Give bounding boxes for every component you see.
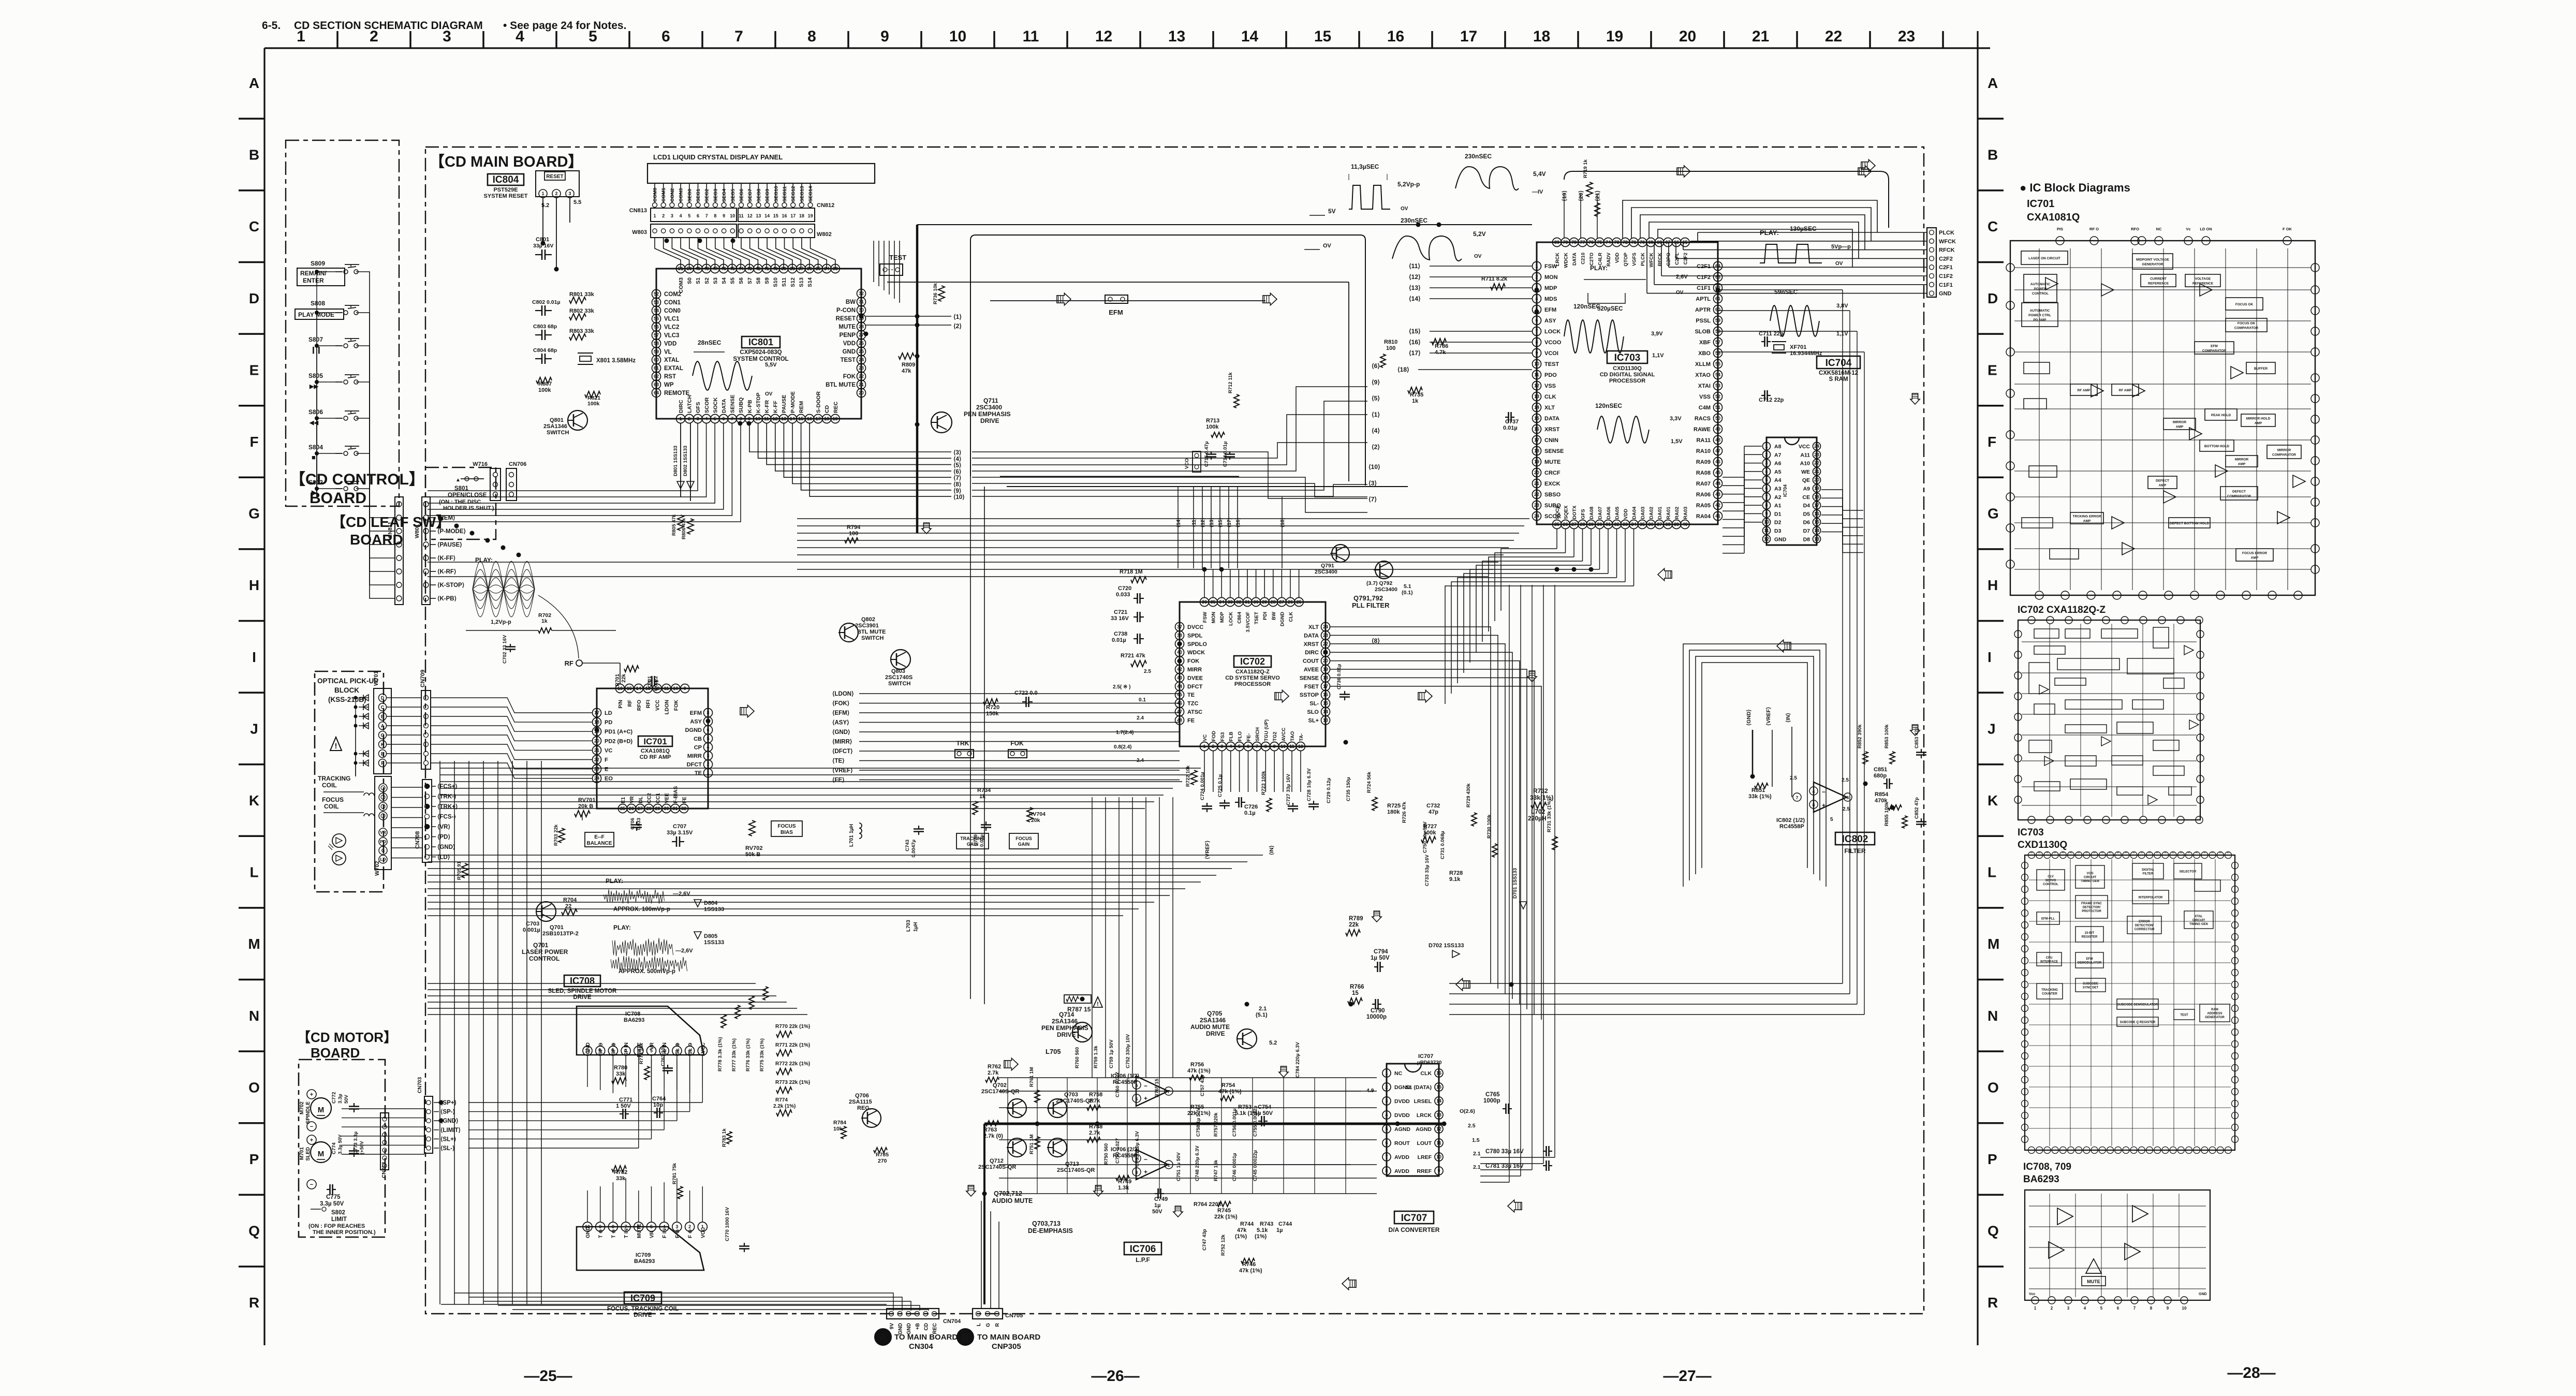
svg-text:W702: W702 — [374, 861, 380, 876]
svg-text:R703 22k: R703 22k — [553, 824, 559, 846]
resistor R785 270 — [874, 1148, 889, 1164]
svg-text:23: 23 — [859, 365, 864, 371]
svg-text:1µ: 1µ — [1276, 1227, 1283, 1233]
svg-text:23: 23 — [1814, 452, 1819, 457]
svg-text:4: 4 — [2084, 1306, 2086, 1311]
svg-text:(ON : THE DISC: (ON : THE DISC — [439, 499, 481, 505]
svg-text:R855 100k: R855 100k — [1884, 802, 1890, 826]
svg-text:E: E — [249, 362, 259, 378]
svg-text:S: S — [2164, 851, 2167, 854]
svg-text:FOCUS: FOCUS — [1015, 836, 1032, 841]
svg-text:RV701: RV701 — [578, 797, 595, 803]
svg-text:VDD: VDD — [1623, 509, 1629, 519]
wire PLL riser bundle — [1176, 487, 1286, 568]
svg-text:PD1 (A+C): PD1 (A+C) — [605, 729, 632, 735]
board outline CD MAIN BOARD — [425, 147, 1924, 1314]
svg-text:RA08: RA08 — [1696, 470, 1711, 476]
svg-text:C748 220µ 6.3V: C748 220µ 6.3V — [1195, 1145, 1200, 1181]
svg-text:34: 34 — [824, 266, 829, 271]
svg-text:S805: S805 — [308, 372, 323, 379]
waveform 28nSEC inside IC801 — [693, 339, 777, 397]
svg-text:21: 21 — [859, 382, 864, 387]
svg-text:100k: 100k — [1206, 424, 1219, 430]
svg-text:9: 9 — [1437, 1168, 1440, 1173]
svg-text:FS3: FS3 — [1220, 732, 1226, 741]
svg-text:C751 1µ 50V: C751 1µ 50V — [1176, 1152, 1182, 1181]
svg-text:PEAK HOLD: PEAK HOLD — [2211, 414, 2231, 417]
board outline CD MOTOR BOARD — [297, 1030, 397, 1237]
svg-text:S: S — [2030, 851, 2034, 854]
svg-text:P: P — [249, 1151, 259, 1167]
svg-text:DATA: DATA — [1544, 416, 1559, 422]
svg-text:62: 62 — [654, 374, 659, 379]
svg-text:VLC1: VLC1 — [664, 316, 680, 322]
svg-text:C: C — [1988, 218, 1998, 234]
svg-text:COIL: COIL — [322, 782, 337, 789]
svg-text:K-PB: K-PB — [747, 400, 753, 413]
svg-text:8: 8 — [612, 1224, 614, 1229]
svg-text:S RAM: S RAM — [1829, 376, 1848, 383]
svg-text:11: 11 — [739, 213, 744, 218]
svg-text:IC802: IC802 — [1842, 834, 1868, 845]
svg-text:BIAS: BIAS — [781, 830, 793, 835]
svg-text:C774: C774 — [331, 1142, 337, 1154]
svg-text:COMPARATOR: COMPARATOR — [2227, 495, 2251, 498]
svg-text:⟨SL+⟩: ⟨SL+⟩ — [440, 1136, 456, 1142]
svg-text:4: 4 — [680, 213, 682, 218]
svg-text:23: 23 — [1534, 503, 1539, 508]
svg-text:25: 25 — [1297, 599, 1302, 605]
svg-text:5: 5 — [1765, 477, 1768, 482]
svg-text:XLT: XLT — [1544, 405, 1555, 411]
svg-text:H: H — [249, 577, 259, 593]
svg-text:LASER ON CIRCUIT: LASER ON CIRCUIT — [2028, 257, 2060, 260]
switch S806 rew — [308, 408, 359, 426]
svg-text:15: 15 — [1323, 701, 1328, 706]
svg-text:Q: Q — [248, 1223, 260, 1239]
svg-text:DA05: DA05 — [1615, 506, 1621, 519]
svg-text:RA06: RA06 — [1696, 492, 1711, 498]
resistor R787 15 fuse — [1064, 995, 1102, 1013]
svg-text:39: 39 — [1674, 522, 1679, 527]
svg-text:SSTOP: SSTOP — [1300, 692, 1319, 698]
svg-text:FOK: FOK — [673, 699, 679, 711]
svg-text:53: 53 — [654, 300, 659, 305]
svg-text:⟨5⟩: ⟨5⟩ — [953, 462, 961, 469]
svg-text:R750 560: R750 560 — [1103, 1143, 1109, 1165]
svg-text:3,9V: 3,9V — [1651, 331, 1663, 337]
svg-text:CN304: CN304 — [909, 1342, 933, 1351]
svg-text:8: 8 — [706, 710, 709, 715]
svg-text:100: 100 — [1386, 345, 1395, 351]
svg-text:14: 14 — [764, 213, 770, 218]
label E-F BALANCE — [585, 832, 614, 847]
svg-text:R754: R754 — [1221, 1082, 1235, 1089]
svg-text:R762: R762 — [988, 1064, 1001, 1070]
svg-text:⟨4⟩: ⟨4⟩ — [1372, 427, 1380, 434]
svg-text:COM3: COM3 — [678, 277, 684, 293]
LCD1 liquid crystal display panel — [647, 153, 875, 208]
resistor R789 22k — [1346, 916, 1363, 936]
svg-text:0.8(2.4): 0.8(2.4) — [1114, 744, 1131, 750]
svg-text:−: − — [310, 1182, 313, 1188]
svg-text:SCOR: SCOR — [704, 397, 710, 413]
svg-text:D801 1SS133: D801 1SS133 — [673, 446, 679, 476]
svg-text:Q703: Q703 — [1064, 1092, 1078, 1098]
svg-text:120nSEC: 120nSEC — [1595, 402, 1622, 409]
svg-text:⟨VR⟩: ⟨VR⟩ — [437, 824, 450, 830]
svg-text:77: 77 — [1580, 240, 1585, 245]
svg-text:CB: CB — [694, 736, 702, 742]
svg-text:LREF: LREF — [1418, 1154, 1432, 1160]
svg-text:5,4V: 5,4V — [1533, 170, 1546, 178]
signal flow arrows — [740, 159, 1920, 1289]
svg-text:3: 3 — [671, 213, 673, 218]
svg-text:C780 33µ 16V: C780 33µ 16V — [1485, 1149, 1524, 1155]
svg-text:VR: VR — [650, 1042, 655, 1050]
svg-text:WDCK: WDCK — [1187, 650, 1205, 656]
wire audio internal mesh — [999, 1078, 1377, 1194]
svg-text:2: 2 — [1212, 744, 1214, 749]
svg-text:C210: C210 — [1581, 253, 1586, 264]
svg-text:S10: S10 — [773, 277, 779, 287]
svg-text:59: 59 — [1715, 318, 1720, 323]
svg-text:W716: W716 — [473, 461, 488, 467]
svg-text:K-STOP: K-STOP — [755, 393, 761, 413]
svg-text:S: S — [2212, 851, 2215, 854]
svg-text:PDI: PDI — [1262, 612, 1268, 620]
svg-text:PST529E: PST529E — [493, 187, 518, 193]
svg-text:G: G — [985, 1323, 991, 1327]
pot RV701 20k — [575, 797, 595, 820]
svg-text:Q801: Q801 — [550, 417, 564, 423]
svg-text:C732: C732 — [1426, 803, 1440, 809]
svg-text:C744: C744 — [1278, 1221, 1292, 1227]
svg-text:22k: 22k — [621, 674, 627, 683]
svg-text:R751 1M: R751 1M — [1029, 1134, 1035, 1154]
svg-text:BOARD: BOARD — [311, 1045, 360, 1061]
svg-text:4: 4 — [516, 28, 524, 45]
svg-text:SOCK: SOCK — [712, 397, 718, 413]
svg-text:IC704: IC704 — [1783, 484, 1788, 497]
svg-text:C739: C739 — [973, 834, 979, 846]
svg-text:RC4558P: RC4558P — [1113, 1079, 1138, 1085]
wire IC703 to IC704 — [1723, 446, 1863, 553]
svg-text:SYSTEM RESET: SYSTEM RESET — [484, 193, 528, 199]
svg-text:XTAL: XTAL — [664, 357, 679, 363]
svg-text:RESET: RESET — [546, 174, 563, 180]
svg-text:EFM: EFM — [1544, 307, 1556, 313]
svg-text:14: 14 — [1241, 28, 1259, 45]
svg-text:CN704: CN704 — [943, 1318, 961, 1325]
svg-text:C2TO: C2TO — [1589, 253, 1595, 266]
svg-text:E1: E1 — [621, 797, 626, 803]
capacitor C770 1000 16V — [725, 1207, 749, 1252]
svg-text:VDD: VDD — [1615, 253, 1621, 263]
svg-text:T ⊖: T ⊖ — [598, 1229, 604, 1238]
svg-text:FLO: FLO — [1238, 731, 1243, 741]
svg-text:7: 7 — [705, 213, 708, 218]
svg-text:46: 46 — [1715, 459, 1720, 464]
svg-text:5: 5 — [714, 416, 716, 421]
waveform 120nSEC lower — [1595, 402, 1683, 445]
svg-text:1: 1 — [653, 213, 656, 218]
svg-text:RFI: RFI — [646, 700, 652, 708]
svg-text:63: 63 — [1715, 274, 1720, 280]
svg-text:O: O — [248, 1079, 260, 1095]
svg-text:CON0: CON0 — [664, 308, 681, 314]
svg-text:C726: C726 — [1244, 804, 1258, 810]
svg-text:P-MODE: P-MODE — [790, 391, 796, 413]
svg-text:HOLDER IS SHUT.): HOLDER IS SHUT.) — [443, 505, 494, 511]
svg-text:ERROR: ERROR — [2139, 920, 2150, 923]
svg-text:18: 18 — [824, 416, 829, 421]
svg-text:S4: S4 — [721, 277, 727, 284]
svg-text:SPINDLE: SPINDLE — [305, 1101, 311, 1124]
svg-text:NC: NC — [1394, 1070, 1403, 1077]
svg-text:S: S — [2133, 851, 2136, 854]
svg-text:33k (1%): 33k (1%) — [1748, 793, 1772, 800]
svg-text:(+50V: (+50V — [359, 1141, 365, 1154]
svg-text:7: 7 — [1256, 744, 1258, 749]
svg-text:RA07: RA07 — [1696, 481, 1711, 487]
svg-text:G: G — [380, 733, 384, 738]
svg-text:VR: VR — [629, 796, 635, 803]
svg-text:(0.1): (0.1) — [1402, 590, 1413, 596]
svg-text:S: S — [2046, 851, 2049, 854]
svg-text:⟨LDON⟩: ⟨LDON⟩ — [832, 690, 854, 697]
svg-text:6: 6 — [697, 213, 699, 218]
svg-text:⟨2⟩: ⟨2⟩ — [953, 322, 962, 330]
svg-text:2: 2 — [1765, 452, 1768, 457]
op IC703 CXD1130Q digital signal processor — [1533, 238, 1723, 529]
pot RV702 50k — [745, 820, 762, 858]
svg-text:1,1V: 1,1V — [1652, 352, 1664, 359]
svg-text:OV: OV — [765, 391, 773, 397]
svg-text:FILTER: FILTER — [1844, 847, 1865, 855]
svg-text:INTERPOLATOR: INTERPOLATOR — [2139, 897, 2163, 900]
svg-text:5.5: 5.5 — [573, 199, 581, 205]
svg-text:R851: R851 — [1751, 787, 1765, 793]
svg-text:S3: S3 — [712, 277, 718, 284]
svg-text:9: 9 — [599, 1224, 601, 1229]
svg-text:C747 43p: C747 43p — [1202, 1229, 1208, 1251]
svg-text:SEG11: SEG11 — [782, 186, 788, 202]
svg-text:44: 44 — [1715, 481, 1720, 486]
svg-text:15: 15 — [1314, 28, 1331, 45]
svg-text:S0: S0 — [687, 277, 693, 284]
svg-text:CORRECTOR: CORRECTOR — [2135, 928, 2155, 931]
svg-text:5,2V: 5,2V — [1473, 230, 1486, 238]
motor M701 sled — [299, 1135, 331, 1189]
svg-text:2SC3400: 2SC3400 — [976, 404, 1002, 411]
svg-text:12: 12 — [1095, 28, 1112, 45]
svg-text:2.7k: 2.7k — [988, 1070, 999, 1076]
svg-text:R782: R782 — [614, 1169, 627, 1175]
svg-text:51: 51 — [678, 266, 683, 271]
svg-text:M: M — [1988, 936, 1999, 952]
svg-text:SERVO: SERVO — [2045, 879, 2056, 883]
svg-text:2.5: 2.5 — [1144, 669, 1151, 674]
svg-text:SWITCH: SWITCH — [547, 430, 569, 436]
svg-text:BA6293: BA6293 — [634, 1258, 655, 1265]
svg-text:D3: D3 — [1774, 528, 1782, 534]
svg-text:PLAY:: PLAY: — [606, 877, 623, 885]
svg-text:⟨PD⟩: ⟨PD⟩ — [437, 834, 450, 841]
svg-text:1: 1 — [1535, 263, 1538, 269]
svg-text:COUT: COUT — [1303, 658, 1319, 665]
svg-text:R773 22k (1%): R773 22k (1%) — [775, 1080, 810, 1085]
svg-text:2: 2 — [2051, 1306, 2053, 1311]
svg-text:2SA1115: 2SA1115 — [849, 1099, 872, 1105]
svg-text:S: S — [2109, 851, 2112, 854]
svg-text:S5: S5 — [730, 277, 736, 284]
svg-text:7: 7 — [2133, 1306, 2136, 1311]
switch S804 stop — [308, 444, 359, 461]
waveform 120nSEC upper — [1564, 303, 1664, 359]
svg-text:S: S — [2196, 851, 2199, 854]
svg-text:35: 35 — [1640, 522, 1645, 527]
resistor R705 91 — [457, 861, 468, 880]
svg-text:⟨20⟩: ⟨20⟩ — [1578, 190, 1584, 201]
svg-text:⟨9⟩: ⟨9⟩ — [953, 488, 961, 494]
svg-text:⟨6⟩: ⟨6⟩ — [953, 468, 961, 475]
svg-text:PDO: PDO — [1544, 372, 1557, 378]
svg-text:1SS133: 1SS133 — [704, 939, 724, 946]
svg-text:59: 59 — [654, 349, 659, 354]
svg-text:FOCUS ERROR: FOCUS ERROR — [2242, 552, 2267, 555]
svg-text:R743: R743 — [1260, 1221, 1273, 1227]
svg-text:VCOO: VCOO — [1544, 340, 1562, 346]
svg-text:DVCC: DVCC — [1187, 624, 1203, 630]
svg-text:22: 22 — [594, 757, 599, 762]
svg-text:50: 50 — [1715, 416, 1720, 421]
svg-text:L: L — [249, 864, 258, 880]
svg-text:2: 2 — [688, 416, 690, 421]
svg-text:SEG6: SEG6 — [739, 189, 745, 202]
svg-text:ROUT: ROUT — [1394, 1140, 1410, 1147]
svg-text:⟨10⟩: ⟨10⟩ — [953, 494, 965, 501]
svg-text:SL+: SL+ — [1308, 717, 1319, 724]
svg-text:BA6293: BA6293 — [2023, 1174, 2059, 1185]
svg-text:L: L — [976, 1323, 982, 1326]
svg-text:IC703: IC703 — [1614, 352, 1641, 363]
svg-text:6: 6 — [2117, 1306, 2119, 1311]
svg-text:2.5: 2.5 — [1843, 806, 1850, 812]
svg-text:2: 2 — [706, 762, 709, 767]
svg-text:C727 33µ 16V: C727 33µ 16V — [1286, 773, 1291, 805]
svg-text:BW: BW — [846, 299, 856, 305]
svg-text:FSET: FSET — [1304, 684, 1319, 690]
svg-text:15: 15 — [1352, 990, 1359, 996]
svg-text:33k: 33k — [616, 1071, 626, 1077]
svg-text:1,5V: 1,5V — [1671, 438, 1683, 445]
svg-text:VCO: VCO — [1184, 458, 1190, 469]
wire left mid verticals — [440, 761, 929, 1311]
svg-text:A: A — [381, 724, 385, 729]
svg-text:R794: R794 — [847, 524, 861, 531]
svg-text:R718 1M: R718 1M — [1120, 569, 1143, 575]
svg-text:WE: WE — [1801, 469, 1810, 475]
svg-text:CE: CE — [1802, 494, 1810, 501]
svg-text:19: 19 — [1606, 28, 1623, 45]
svg-text:CIRCUIT: CIRCUIT — [2192, 919, 2205, 922]
svg-text:S13: S13 — [798, 277, 804, 287]
svg-text:520µSEC: 520µSEC — [1597, 306, 1623, 312]
svg-text:CN708: CN708 — [415, 831, 421, 849]
capacitor C743 0.0047 — [905, 826, 924, 858]
svg-text:C2F2: C2F2 — [1939, 256, 1953, 262]
svg-text:CON2: CON2 — [670, 188, 675, 202]
svg-text:⟨VREF⟩: ⟨VREF⟩ — [1204, 841, 1211, 859]
svg-text:TRK: TRK — [956, 740, 969, 747]
svg-text:SEG9: SEG9 — [765, 189, 771, 202]
svg-text:TGU (UP): TGU (UP) — [1263, 719, 1269, 741]
svg-text:⟨TE⟩: ⟨TE⟩ — [832, 758, 845, 765]
svg-text:23-BIT: 23-BIT — [2085, 932, 2095, 935]
block diagram IC703 CXD1130Q — [2018, 827, 2239, 1154]
transistor Q792 — [1366, 561, 1413, 596]
svg-text:SLO: SLO — [1307, 709, 1319, 715]
svg-text:15: 15 — [1814, 520, 1819, 525]
svg-text:IC703: IC703 — [2018, 827, 2044, 838]
svg-text:⟨8⟩: ⟨8⟩ — [1372, 637, 1380, 644]
svg-text:C746 0.001µ: C746 0.001µ — [1232, 1153, 1238, 1181]
svg-text:⟨7⟩: ⟨7⟩ — [1368, 496, 1377, 503]
svg-text:DIGITAL: DIGITAL — [2142, 869, 2154, 872]
svg-text:1: 1 — [1168, 1163, 1170, 1168]
wire right tall risers — [1449, 290, 1864, 1015]
svg-text:5.1: 5.1 — [1404, 583, 1411, 590]
svg-text:R744: R744 — [1240, 1221, 1254, 1227]
transistor Q705 audio mute drive — [1190, 1006, 1277, 1049]
svg-text:ATSC: ATSC — [1187, 709, 1202, 715]
svg-text:CLK: CLK — [1420, 1070, 1432, 1077]
svg-text:CD SYSTEM SERVO: CD SYSTEM SERVO — [1225, 675, 1280, 681]
svg-text:CON1: CON1 — [664, 300, 681, 306]
svg-text:S808: S808 — [311, 300, 325, 307]
wire optical harness labels — [391, 783, 458, 861]
svg-text:49: 49 — [1715, 427, 1720, 432]
svg-text:C758 1µ 50V: C758 1µ 50V — [1196, 1108, 1201, 1137]
svg-text:RV704: RV704 — [1029, 811, 1046, 817]
svg-text:⟨3⟩: ⟨3⟩ — [953, 449, 961, 456]
svg-text:S11: S11 — [781, 277, 787, 287]
svg-text:POWER: POWER — [2034, 287, 2047, 291]
svg-text:IC701: IC701 — [643, 737, 667, 746]
svg-text:IC709: IC709 — [636, 1252, 651, 1258]
diodes on W701 — [354, 695, 369, 776]
svg-text:SUBCODE DEMODULATOR: SUBCODE DEMODULATOR — [2117, 1004, 2158, 1007]
svg-text:⟨K-STOP⟩: ⟨K-STOP⟩ — [437, 582, 464, 589]
op IC801 CXP5024 system control — [652, 264, 866, 423]
svg-text:50V: 50V — [344, 1094, 349, 1104]
svg-text:C773 3.3µ: C773 3.3µ — [353, 1132, 359, 1154]
svg-text:DA03: DA03 — [1640, 507, 1646, 519]
svg-text:RAM: RAM — [2211, 1008, 2218, 1011]
svg-text:XF701: XF701 — [1790, 344, 1806, 350]
svg-text:⟨12⟩: ⟨12⟩ — [1409, 273, 1421, 281]
svg-text:3: 3 — [2067, 1306, 2070, 1311]
svg-text:AGND: AGND — [1416, 1126, 1432, 1133]
svg-text:Q701: Q701 — [550, 924, 564, 931]
svg-text:1 50V: 1 50V — [616, 1103, 631, 1109]
svg-text:C736 0.01µ: C736 0.01µ — [1336, 664, 1342, 689]
svg-text:2: 2 — [662, 213, 665, 218]
svg-text:E: E — [1988, 362, 1997, 378]
wire IC702 top stubs — [1204, 569, 1299, 597]
svg-text:O: O — [1988, 1079, 1999, 1095]
